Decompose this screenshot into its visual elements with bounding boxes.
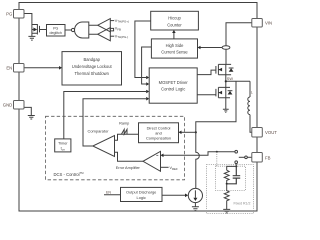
svg-text:Current Sense: Current Sense	[161, 49, 188, 54]
op-amp U4 (PG comparator low)	[98, 28, 111, 41]
svg-text:VTH(PG+): VTH(PG+)	[115, 19, 129, 24]
wire EN to bandgap (arrow)	[24, 66, 62, 70]
svg-text:Ramp: Ramp	[119, 122, 129, 126]
node SW rail	[226, 75, 250, 88]
wire VIN rail to ellipse and HS drain	[226, 23, 252, 65]
svg-text:VFB: VFB	[115, 27, 121, 32]
ramp sawtooth symbol	[121, 129, 127, 134]
pin VOUT	[252, 128, 262, 138]
block direct control and compensation	[139, 123, 179, 143]
block MOSFET driver control logic	[149, 68, 197, 103]
wire switch to divider top node	[235, 164, 237, 167]
svg-text:High Side: High Side	[166, 43, 184, 48]
wire current sense up to hiccup (arrow)	[172, 30, 176, 39]
wire discharge logic to current source (arrow)	[162, 194, 188, 198]
svg-text:Compensation: Compensation	[146, 135, 171, 140]
pin EN	[14, 64, 25, 73]
wire sense line to divider (dotted option)	[216, 151, 218, 153]
svg-text:Fixed R1/2: Fixed R1/2	[234, 201, 251, 205]
resistor R1	[224, 170, 229, 184]
ground (current source)	[192, 203, 199, 211]
wire VREF stub	[161, 166, 169, 168]
svg-text:Comparator: Comparator	[87, 129, 109, 134]
svg-text:VREF: VREF	[170, 166, 178, 171]
wire comparator bottom input from EA output	[115, 152, 144, 161]
wire GND pin to ground	[24, 107, 31, 115]
wire comparator top input to ramp line	[115, 134, 139, 140]
wire driver to HS gate	[197, 70, 216, 75]
ground (LS FET source)	[223, 98, 229, 113]
svg-text:deglitch: deglitch	[50, 31, 62, 35]
block high side current sense	[151, 39, 197, 58]
ground (divider bottom)	[223, 209, 230, 213]
svg-text:Logic: Logic	[137, 195, 146, 200]
wire sense line EA input (arrow)	[161, 152, 235, 157]
wire NAND inputs	[89, 25, 98, 34]
svg-text:MOSFET Driver: MOSFET Driver	[159, 80, 189, 85]
svg-text:EN: EN	[106, 191, 111, 195]
svg-text:Counter: Counter	[167, 22, 182, 27]
transistor Q2 (low side FET)	[216, 87, 233, 97]
svg-text:Hiccup: Hiccup	[168, 16, 181, 21]
block output discharge logic	[121, 187, 163, 201]
pin PG	[14, 10, 25, 19]
wire tap to direct control (arrow)	[179, 131, 196, 135]
current sense ellipse	[222, 46, 230, 50]
block hiccup counter	[151, 11, 199, 30]
op-amp U5 (DCS comparator)	[93, 136, 115, 157]
wire hiccup to driver logic (arrow)	[135, 21, 151, 79]
pin VIN	[252, 19, 262, 28]
wire deglitch to NAND bubble	[65, 29, 71, 31]
EA minus mark	[156, 154, 158, 156]
svg-text:GND: GND	[3, 102, 13, 107]
pin FB	[252, 153, 262, 163]
node junction (direct control tap)	[195, 131, 197, 133]
wire SW discharge branch	[196, 81, 236, 188]
wire timer to driver logic (arrow)	[64, 90, 149, 139]
svg-text:VIN: VIN	[265, 20, 272, 25]
resistor R2	[224, 184, 229, 209]
svg-text:VOUT: VOUT	[265, 130, 277, 135]
op-amp U2 (NAND gate, mirrored)	[71, 22, 88, 38]
svg-text:ton: ton	[61, 147, 66, 152]
DCS-Control dashed box	[46, 116, 185, 180]
svg-text:DCS - ControlTM: DCS - ControlTM	[54, 171, 85, 177]
transistor Q1 (high side FET)	[216, 64, 234, 74]
node VFB bracket	[110, 28, 113, 31]
svg-text:Undervoltage Lockout: Undervoltage Lockout	[72, 64, 113, 69]
svg-text:SW: SW	[227, 76, 234, 81]
svg-text:L: L	[251, 91, 253, 95]
svg-text:Error Amplifier: Error Amplifier	[116, 166, 141, 170]
svg-text:Thermal Shutdown: Thermal Shutdown	[75, 71, 110, 76]
node VTH(PG+) stub	[110, 20, 114, 22]
block timer ton	[55, 139, 71, 152]
wire EN stub to discharge logic	[104, 194, 121, 196]
op-amp U6 (error amplifier)	[143, 151, 161, 171]
svg-text:Bandgap: Bandgap	[83, 57, 100, 62]
svg-text:FB: FB	[265, 155, 271, 160]
node VTH(PG-) stub	[110, 35, 114, 37]
pin GND	[14, 101, 25, 110]
transistor Q3 (PG open-drain FET)	[32, 24, 47, 36]
ground (GND pin)	[28, 116, 35, 120]
chip border	[19, 3, 257, 212]
wire driver to LS gate	[197, 94, 216, 96]
wire comparator to driver logic (arrow)	[83, 97, 149, 146]
block bandgap/UVLO/thermal	[62, 52, 122, 85]
internal divider dotted box	[207, 165, 254, 214]
current source I1	[188, 188, 202, 202]
svg-text:EN: EN	[6, 65, 12, 70]
feed-forward dotted sub-box	[216, 166, 246, 190]
capacitor C1	[227, 166, 241, 183]
svg-text:Control Logic: Control Logic	[161, 87, 185, 92]
wire PG pin to FET drain	[24, 14, 32, 25]
svg-text:PG: PG	[6, 11, 13, 16]
ground (PG FET source)	[28, 36, 35, 40]
wire ellipse to current sense box (arrow)	[198, 46, 223, 50]
op-amp U3 (PG comparator high)	[98, 19, 111, 32]
inductor L	[248, 81, 252, 132]
PG deglitch box	[47, 25, 66, 37]
svg-text:Timer: Timer	[58, 142, 68, 146]
switch S1 contacts	[235, 150, 252, 163]
wire current sense to driver logic (arrow)	[142, 47, 152, 86]
svg-text:VTH(PG-): VTH(PG-)	[115, 34, 128, 39]
